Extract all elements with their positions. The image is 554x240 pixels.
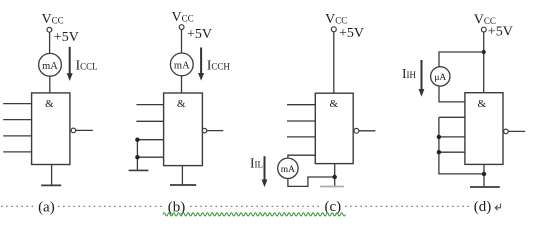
wire VCC node to ammeter (d) <box>439 52 484 67</box>
output bubble (a) <box>71 128 76 133</box>
svg-text:+5V: +5V <box>488 24 513 39</box>
output wire (b) <box>207 130 223 132</box>
current arrow ICCL <box>67 47 73 81</box>
paragraph return mark <box>495 204 500 211</box>
input wire 2 (b) <box>136 120 163 122</box>
supply terminal (a) <box>47 27 52 32</box>
dotted separator segment 1 <box>1 205 34 207</box>
input wire 4 (d) <box>439 151 465 153</box>
input wire 1 (a) <box>3 103 31 105</box>
input wire 2 (a) <box>3 119 31 121</box>
NAND gate U1 (a) <box>32 93 70 165</box>
current arrow IIH <box>419 60 425 97</box>
ammeter mA (a) <box>39 53 62 76</box>
ammeter mA (c) <box>278 158 298 178</box>
supply terminal (c) <box>331 27 336 32</box>
wire gate to ground (d) <box>483 164 485 187</box>
dotted separator segment 3 <box>190 205 323 207</box>
junction dot input 3 (d) <box>437 135 441 139</box>
wire gate to ground (c) <box>334 164 336 187</box>
output wire (c) <box>359 130 376 132</box>
NAND gate U3 (c) <box>315 93 353 163</box>
wire gate to ground (b) <box>181 166 183 185</box>
junction dot ground (d) <box>482 172 486 176</box>
input wire 2 (c) <box>287 120 315 122</box>
ground (a) <box>41 184 61 186</box>
input wire 1 (c) <box>287 104 315 106</box>
svg-text:mA: mA <box>42 61 58 72</box>
ground input tie (b) <box>129 169 149 171</box>
wire terminal to gate (c) <box>333 32 335 93</box>
svg-text:&: & <box>177 98 186 110</box>
green wavy underline <box>163 213 345 216</box>
ammeter uA (d) <box>431 67 450 86</box>
output wire (d) <box>508 130 525 132</box>
NAND gate U4 (d) <box>465 93 503 165</box>
junction dot (c) <box>333 175 337 179</box>
wire ammeter to gate (b) <box>181 76 183 93</box>
junction dot VCC (d) <box>482 50 486 54</box>
svg-text:μA: μA <box>434 73 446 83</box>
svg-text:&: & <box>330 98 339 110</box>
output wire (a) <box>76 129 93 131</box>
supply terminal (d) <box>481 27 486 32</box>
output bubble (b) <box>202 128 206 132</box>
wire ammeter to gate (a) <box>49 76 51 93</box>
svg-text:&: & <box>478 98 487 110</box>
svg-text:+5V: +5V <box>187 27 212 42</box>
junction dot input 4 (b) <box>135 155 139 159</box>
input wire 3 (a) <box>3 135 31 137</box>
NAND gate U2 (b) <box>164 93 203 166</box>
svg-text:mA: mA <box>174 61 190 72</box>
wire ammeter to gate input 1 (d) <box>439 86 465 102</box>
output bubble (d) <box>504 129 509 134</box>
ammeter mA (b) <box>170 53 193 76</box>
svg-text:mA: mA <box>281 165 295 175</box>
input wire 3 (c) <box>287 136 315 138</box>
current arrow IIL <box>262 156 268 187</box>
svg-text:(d): (d) <box>474 199 492 215</box>
dotted separator segment 4 <box>345 205 471 207</box>
wire terminal to ammeter (a) <box>49 32 51 53</box>
dotted separator segment 2 <box>58 205 164 207</box>
junction dot input 4 (d) <box>437 150 441 154</box>
svg-text:&: & <box>45 98 54 110</box>
input wire 1 (b) <box>136 104 163 106</box>
svg-text:(a): (a) <box>38 199 55 215</box>
input wire 4 (a) <box>3 151 31 153</box>
output bubble (c) <box>354 128 359 133</box>
wire gate to ground (a) <box>51 165 53 186</box>
tie wire inputs 3-4 to ground (b) <box>136 140 138 171</box>
tie wire inputs 2-4 to ground (d) <box>439 117 484 174</box>
ground (b) <box>170 184 196 186</box>
current arrow ICCH <box>198 48 204 81</box>
svg-text:+5V: +5V <box>54 30 79 45</box>
wire terminal to ammeter (b) <box>181 30 183 53</box>
wire ammeter to ground node (c) <box>288 177 335 186</box>
junction dot input 3 (b) <box>135 138 139 142</box>
svg-text:+5V: +5V <box>339 26 364 41</box>
supply terminal (b) <box>179 25 184 30</box>
input wire 3 (b) <box>137 139 163 141</box>
input wire 2 (d) <box>439 116 465 118</box>
ground (c) <box>320 186 344 188</box>
wire terminal to gate (d) <box>483 32 485 93</box>
input wire 4 from ammeter (c) <box>288 155 315 158</box>
ground (d) <box>470 186 500 188</box>
input wire 3 (d) <box>439 136 465 138</box>
input wire 4 (b) <box>137 156 163 158</box>
